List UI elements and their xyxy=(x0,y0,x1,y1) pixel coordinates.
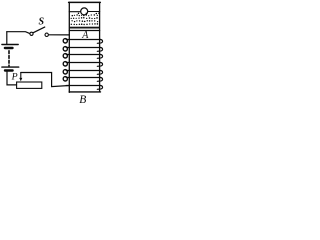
battery cell 2 short plate xyxy=(5,69,13,71)
svg-text:B: B xyxy=(79,94,86,104)
vessel top wall xyxy=(69,1,101,3)
battery cell 1 short plate xyxy=(5,47,13,49)
coil B turn 5 right hook xyxy=(97,71,102,75)
wire battery top lead xyxy=(6,32,8,44)
coil B turn 5 left curl xyxy=(63,70,67,74)
svg-text:S: S xyxy=(39,17,45,28)
battery dashed continuation xyxy=(8,51,10,66)
svg-text:P: P xyxy=(11,71,18,82)
coil B turn 7 right hook xyxy=(97,86,102,90)
liquid stipple xyxy=(71,13,100,26)
vessel left wall xyxy=(68,2,70,92)
coil B turn 4 left curl xyxy=(63,62,67,66)
bulb support line right xyxy=(88,11,100,13)
coil B turn 6 right hook xyxy=(97,78,102,82)
coil B turn 2 left curl xyxy=(63,47,67,51)
switch S right contact xyxy=(45,33,48,36)
wire slider to coil B bottom xyxy=(21,73,70,87)
switch S left contact xyxy=(30,32,33,35)
coil B turn 3 wire xyxy=(66,54,101,56)
rheostat slider arrow xyxy=(20,73,22,79)
coil B turn 3 right hook xyxy=(97,55,102,59)
coil B turn 5 wire xyxy=(66,70,101,72)
liquid surface dark band xyxy=(70,27,100,29)
bulb circle xyxy=(81,8,88,15)
rheostat P body xyxy=(17,82,42,88)
battery cell 2 long plate xyxy=(2,66,19,68)
coil B turn 4 right hook xyxy=(97,63,102,67)
vessel right wall xyxy=(99,2,101,92)
coil B turn 1 wire xyxy=(66,39,101,41)
coil B turn 6 left curl xyxy=(63,77,67,81)
coil B turn 4 wire xyxy=(66,62,101,64)
wire from battery positive to switch xyxy=(7,32,30,34)
wire switch to vessel xyxy=(49,34,70,36)
switch S lever xyxy=(33,27,45,33)
coil B turn 6 wire xyxy=(66,77,101,79)
coil B turn 7 wire xyxy=(66,85,101,87)
battery cell 1 long plate xyxy=(2,44,18,46)
coil B turn 1 right hook xyxy=(97,40,102,44)
wire battery negative lead to rheostat xyxy=(7,72,17,85)
vessel bottom wall xyxy=(69,91,100,93)
coil B turn 1 left curl xyxy=(63,39,67,43)
coil B turn 2 right hook xyxy=(97,48,102,52)
bulb support line left xyxy=(69,11,80,13)
coil B turn 3 left curl xyxy=(63,54,67,58)
coil B turn 2 wire xyxy=(66,47,101,49)
inner vessel A bottom line xyxy=(69,30,99,32)
